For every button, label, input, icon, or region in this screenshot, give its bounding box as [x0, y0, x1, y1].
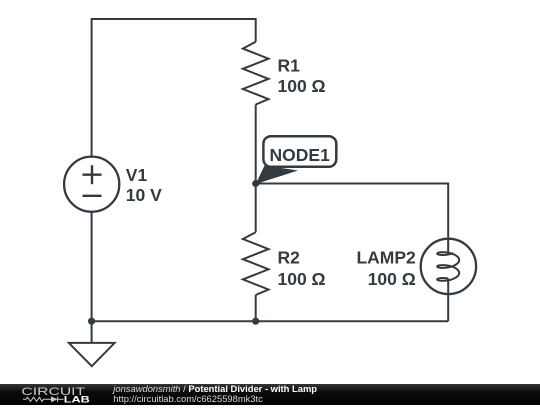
V1 plus sign: [83, 165, 102, 184]
svg-text:LAB: LAB: [64, 395, 90, 405]
wire: V1 negative to bottom rail: [91, 212, 93, 322]
svg-text:R1: R1: [278, 55, 301, 75]
NODE1 flag box: [263, 136, 336, 167]
NODE1 flag pointer tail: [256, 166, 298, 185]
svg-text:10 V: 10 V: [126, 185, 162, 205]
V1 minus sign: [83, 195, 102, 197]
svg-text:100 Ω: 100 Ω: [368, 269, 416, 289]
svg-text:http://circuitlab.com/c6625598: http://circuitlab.com/c6625598mk3tc: [113, 393, 263, 404]
wire: bottom ground rail: [92, 320, 449, 322]
node junction dot R2-bottom: [252, 318, 259, 325]
ground symbol: [69, 321, 115, 366]
wire: NODE1 to LAMP2 top: [256, 184, 449, 255]
wire: NODE1 to R2: [255, 184, 257, 233]
wire: top rail from V1+ to R1: [92, 19, 256, 157]
svg-text:100 Ω: 100 Ω: [278, 269, 326, 289]
lamp LAMP2 filament coil: [437, 252, 459, 281]
svg-text:LAMP2: LAMP2: [356, 247, 416, 267]
footer logo diode triangle: [51, 396, 58, 402]
wire: LAMP2 bottom to ground rail: [447, 279, 449, 322]
node junction dot NODE1: [252, 180, 259, 187]
svg-text:100 Ω: 100 Ω: [278, 76, 326, 96]
footer watermark bar: [0, 384, 540, 405]
lamp LAMP2 circle: [421, 239, 476, 294]
voltage source V1 circle: [64, 157, 119, 212]
node junction dot ground-left: [88, 318, 95, 325]
footer logo resistor-diode doodle: [23, 397, 64, 403]
wire: R1 bottom to NODE1: [255, 105, 257, 184]
svg-text:NODE1: NODE1: [270, 145, 331, 165]
resistor R1: [243, 42, 269, 105]
resistor R2: [243, 232, 269, 295]
svg-text:V1: V1: [126, 165, 148, 185]
svg-text:R2: R2: [278, 247, 301, 267]
wire: R2 bottom to ground rail: [255, 295, 257, 321]
